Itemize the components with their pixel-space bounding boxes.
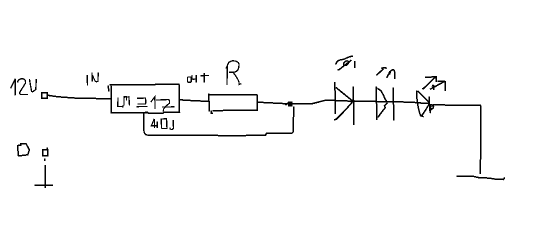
pin label IN	[87, 72, 98, 85]
terminal 12V	[42, 93, 48, 99]
pin label ADJ	[151, 119, 174, 130]
light arrows D1	[336, 56, 355, 70]
node A junction	[286, 102, 293, 107]
wire node A to D1	[292, 100, 335, 104]
supply label 12V	[11, 79, 37, 96]
wire right drop	[479, 106, 482, 175]
LED D1	[334, 82, 354, 125]
pin label OUT	[187, 73, 209, 83]
wire D1 to D2	[335, 100, 376, 103]
wire D2 to D3	[394, 102, 417, 103]
wire through D2	[377, 101, 394, 103]
ground bar right	[457, 176, 505, 179]
LED D3	[417, 91, 434, 117]
ground symbol left	[35, 184, 53, 186]
label 0V	[18, 144, 30, 156]
LED D2	[376, 87, 393, 121]
wire through D3	[417, 102, 429, 105]
wire OUT to R	[180, 100, 209, 102]
regulator U1 LM317 box	[108, 84, 179, 113]
wire 12V to LM317 IN	[48, 95, 111, 98]
terminal 0V	[43, 147, 48, 155]
wire 0V terminal to ground	[44, 159, 47, 189]
light arrows D3	[422, 76, 445, 91]
wire R to node A	[258, 102, 288, 104]
text LM317	[118, 97, 175, 112]
label R	[226, 61, 241, 85]
light arrows D2	[376, 68, 394, 80]
resistor R	[209, 94, 258, 114]
wire ADJ to node A	[144, 107, 294, 136]
wire D3 to right corner	[432, 104, 481, 106]
